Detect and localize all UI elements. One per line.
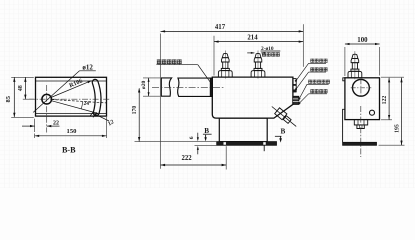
mounting stud 1 on housing top bbox=[224, 51, 226, 79]
dim 85 line with arrows bbox=[13, 77, 15, 117]
side view top-left lip bbox=[343, 78, 346, 81]
dim O20 line with arrows bbox=[148, 78, 150, 96]
dim 222 line with arrows bbox=[161, 164, 227, 166]
dim 2-O10 arrows at stud tip bbox=[247, 52, 254, 54]
plate horizontal centerline bbox=[29, 98, 111, 100]
bottom bolt nut (side view) bbox=[354, 120, 367, 125]
lower terminal box bbox=[219, 118, 267, 142]
svg-text:122: 122 bbox=[382, 96, 388, 105]
svg-text:B-B: B-B bbox=[62, 146, 76, 155]
cable gland nut (rotated) bbox=[283, 116, 291, 124]
dim 22 arrows outside bbox=[22, 125, 35, 127]
rod hole crosshair bbox=[351, 87, 372, 89]
svg-text:48: 48 bbox=[18, 85, 24, 91]
dim 417 line with arrows bbox=[161, 30, 304, 32]
dim 100 extension lines bbox=[344, 47, 346, 76]
leader and label 12 (slot width) bbox=[95, 114, 109, 121]
svg-text:24°: 24° bbox=[84, 100, 92, 107]
extension line flange top level bbox=[135, 141, 217, 143]
dashed wedge line 24 deg bbox=[52, 100, 107, 103]
dim 6 arrows (flange thickness) bbox=[197, 133, 199, 138]
mounting angle bracket vertical plate bbox=[343, 109, 345, 142]
mounting stud 2 on housing top bbox=[257, 51, 259, 79]
rod centerline bbox=[152, 86, 224, 88]
B-B section view: mounting plate outline bbox=[36, 77, 107, 116]
terminal block A on housing right bbox=[293, 79, 296, 85]
dim 195 line with arrows bbox=[401, 78, 403, 145]
hole O12 circle bbox=[42, 94, 52, 104]
svg-text:195: 195 bbox=[394, 124, 400, 133]
radius line R106 with arrow bbox=[51, 81, 91, 98]
extension line flange bottom level bbox=[195, 145, 217, 147]
rod hole circle (side view) bbox=[353, 79, 370, 96]
svg-text:22: 22 bbox=[53, 120, 59, 126]
svg-text:100: 100 bbox=[357, 37, 368, 44]
cable gland axis line bbox=[272, 107, 296, 127]
label mounting hole text bbox=[262, 52, 266, 56]
extension line at flange hole bbox=[225, 146, 227, 169]
svg-text:222: 222 bbox=[181, 155, 192, 162]
terminal strip on housing right bbox=[293, 96, 299, 104]
svg-text:85: 85 bbox=[5, 96, 12, 102]
plate vertical centerline through hole bbox=[46, 85, 48, 133]
svg-text:6: 6 bbox=[189, 136, 195, 139]
mounting angle bracket horizontal leg (dark) bbox=[343, 142, 377, 145]
svg-text:ø20: ø20 bbox=[141, 81, 147, 90]
lower radius line to slot end bbox=[51, 101, 98, 114]
callout: self-test button bbox=[310, 89, 314, 93]
callout: sensitivity adjust bbox=[308, 80, 312, 84]
dim O20 extensions bbox=[143, 77, 160, 79]
svg-text:214: 214 bbox=[247, 34, 258, 41]
faint graph-paper background bbox=[0, 0, 415, 188]
dim 48 line with arrows bbox=[24, 77, 26, 99]
main housing outline bbox=[212, 77, 293, 118]
callout: power indicator bbox=[310, 59, 314, 63]
dim 150 extension lines bbox=[34, 134, 36, 139]
svg-text:B: B bbox=[281, 128, 286, 136]
svg-text:417: 417 bbox=[215, 24, 226, 31]
extension line for 214 bbox=[213, 36, 215, 76]
slot width 12 tick marks bbox=[90, 111, 94, 116]
self-test button circle (side view) bbox=[370, 110, 375, 115]
bolt centerline (side view) bbox=[360, 106, 362, 157]
sensing rod main segment with break line bbox=[178, 78, 213, 96]
dim 122 line with arrows bbox=[388, 78, 390, 120]
terminal block B on housing right bbox=[293, 85, 296, 92]
svg-text:ø12: ø12 bbox=[82, 64, 93, 72]
sensing rod tip segment (O20) bbox=[161, 78, 171, 96]
cable gland body (rotated) bbox=[275, 108, 287, 120]
extension line at body bottom bbox=[381, 119, 392, 121]
svg-text:150: 150 bbox=[67, 128, 78, 135]
24 degree angle arc bbox=[81, 102, 82, 109]
dim 48 extension line bbox=[23, 98, 34, 100]
rod end mounting collar (dark) bbox=[210, 78, 212, 96]
leader for O12 through hole bbox=[33, 71, 79, 113]
extension line at bracket bottom bbox=[379, 144, 405, 146]
extension line top right bbox=[381, 76, 404, 78]
dim 214 line with arrows bbox=[214, 41, 303, 43]
curved slot (R106 arc slot) bbox=[92, 79, 101, 115]
label on rod (CJK) with leader bbox=[157, 59, 162, 64]
dim 22 extension line bbox=[34, 119, 36, 132]
callout: action indicator bbox=[310, 67, 314, 71]
svg-text:170: 170 bbox=[132, 106, 138, 115]
extension line right side (417/214) bbox=[302, 24, 304, 67]
dim 100 line with arrows bbox=[345, 43, 380, 45]
side view top stud bbox=[354, 51, 356, 79]
dim 150 line with arrows bbox=[35, 135, 107, 137]
dim 85 extension lines bbox=[11, 76, 34, 78]
dim 170 line with arrows bbox=[138, 88, 140, 141]
extension line at rod tip bbox=[160, 34, 162, 169]
side view body bbox=[345, 78, 380, 120]
bottom bolt tip (side view) bbox=[357, 125, 364, 129]
bottom mounting flange (dark band) bbox=[217, 142, 277, 146]
